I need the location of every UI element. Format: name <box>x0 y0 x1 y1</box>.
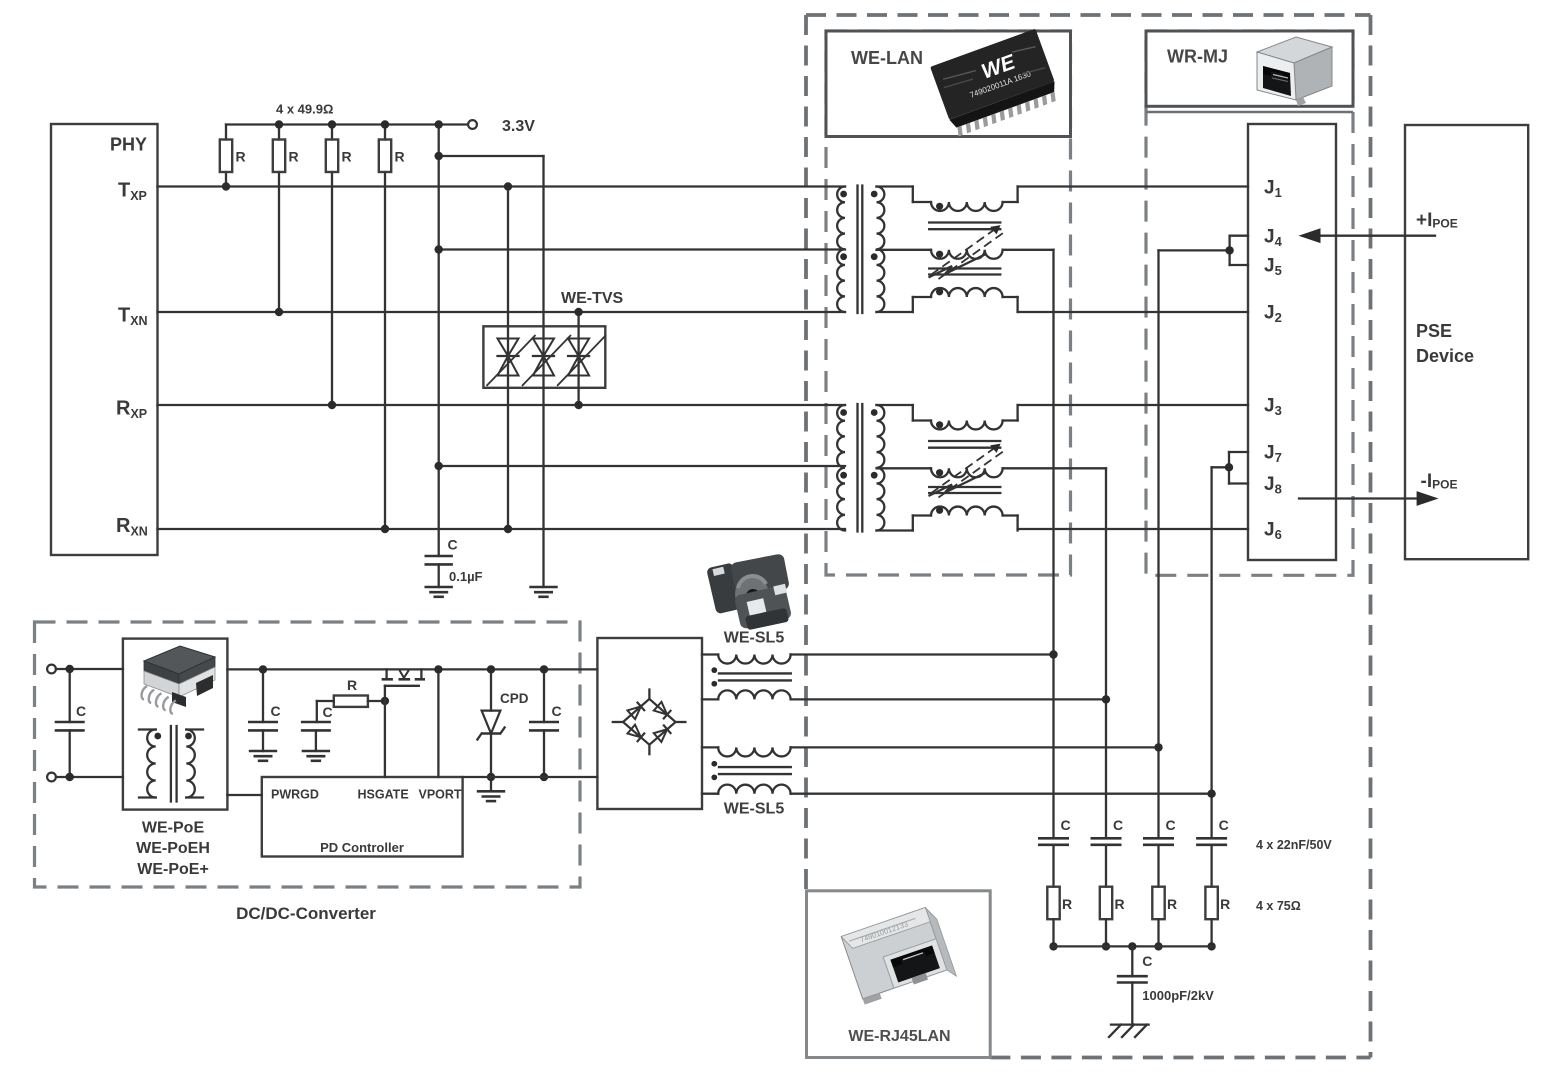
svg-text:PHY: PHY <box>110 135 147 155</box>
svg-text:WE-RJ45LAN: WE-RJ45LAN <box>848 1028 950 1045</box>
svg-text:C: C <box>1219 817 1229 833</box>
svg-text:WE-PoE+: WE-PoE+ <box>137 861 209 878</box>
svg-text:4 x 49.9Ω: 4 x 49.9Ω <box>276 102 333 117</box>
svg-text:WE-LAN: WE-LAN <box>851 48 923 68</box>
svg-text:4 x 75Ω: 4 x 75Ω <box>1256 899 1301 913</box>
svg-text:DC/DC-Converter: DC/DC-Converter <box>236 904 376 923</box>
svg-text:VPORT: VPORT <box>419 788 462 802</box>
svg-text:R: R <box>1220 896 1230 912</box>
svg-text:WE-PoEH: WE-PoEH <box>136 840 210 857</box>
svg-text:R: R <box>342 149 352 165</box>
svg-text:4 x 22nF/50V: 4 x 22nF/50V <box>1256 838 1332 852</box>
svg-text:HSGATE: HSGATE <box>358 788 409 802</box>
svg-text:C: C <box>1166 817 1176 833</box>
svg-text:PSE: PSE <box>1416 321 1452 341</box>
svg-text:C: C <box>76 703 86 719</box>
svg-text:R: R <box>1062 896 1072 912</box>
svg-text:PD Controller: PD Controller <box>320 840 404 855</box>
svg-text:R: R <box>347 677 357 693</box>
svg-text:R: R <box>395 149 405 165</box>
svg-text:C: C <box>448 537 458 553</box>
svg-text:0.1µF: 0.1µF <box>449 569 483 584</box>
svg-text:WE-SL5: WE-SL5 <box>724 801 785 818</box>
svg-text:PWRGD: PWRGD <box>271 788 319 802</box>
svg-text:3.3V: 3.3V <box>502 118 535 135</box>
svg-text:WR-MJ: WR-MJ <box>1167 47 1228 67</box>
svg-text:Device: Device <box>1416 346 1474 366</box>
svg-text:1000pF/2kV: 1000pF/2kV <box>1142 988 1214 1003</box>
svg-text:R: R <box>236 149 246 165</box>
svg-text:C: C <box>1113 817 1123 833</box>
svg-text:C: C <box>1061 817 1071 833</box>
svg-text:C: C <box>271 703 281 719</box>
svg-text:R: R <box>1115 896 1125 912</box>
svg-text:R: R <box>289 149 299 165</box>
svg-text:C: C <box>552 703 562 719</box>
svg-text:WE-SL5: WE-SL5 <box>724 630 785 647</box>
svg-text:WE-TVS: WE-TVS <box>561 290 624 307</box>
svg-text:R: R <box>1167 896 1177 912</box>
svg-text:WE-PoE: WE-PoE <box>142 820 205 837</box>
svg-text:C: C <box>1142 953 1152 969</box>
svg-text:CPD: CPD <box>500 691 529 706</box>
svg-text:C: C <box>323 704 333 720</box>
